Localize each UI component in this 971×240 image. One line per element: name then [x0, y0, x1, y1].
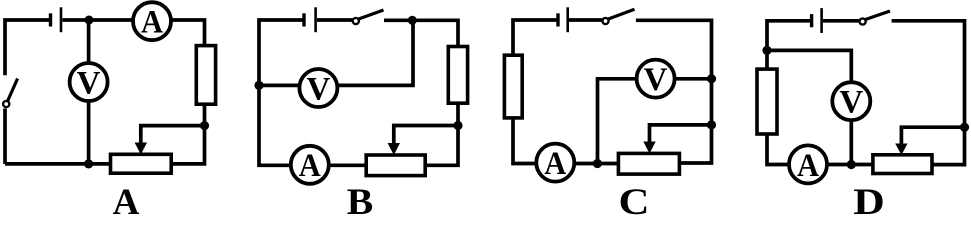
node: C right lower junction [707, 120, 716, 129]
svg-text:C: C [619, 182, 650, 217]
voltmeter V1 (circuit D) [832, 82, 870, 120]
wire: C wiper feed [650, 125, 712, 143]
rheostat R2 (circuit D) [873, 155, 932, 174]
battery (circuit C) [558, 7, 568, 32]
svg-text:V: V [839, 85, 863, 121]
wire: D resistor bottom to bottom-left corner along bottom to rheostat [767, 134, 873, 165]
wire: D wiper feed [901, 127, 964, 144]
svg-text:A: A [299, 148, 321, 184]
wire: B switch to top-right corner down to resistor [384, 20, 458, 47]
rheostat R2 (circuit A) [111, 154, 172, 173]
wire: B voltmeter branch across and up to top junction [259, 20, 413, 85]
wire: B left loop from battery over top-left corner down and along bottom to rheostat [259, 20, 366, 165]
switch S (circuit B, open, on top wire) [353, 10, 384, 24]
switch S (circuit D, open, on top wire) [860, 11, 891, 25]
wire: C battery to switch [569, 18, 602, 22]
wire: A resistor bottom down to rheostat right terminal [171, 104, 204, 164]
wire: A voltmeter branch [87, 20, 91, 164]
battery (circuit D) [812, 8, 822, 33]
node: D bottom junction [847, 160, 856, 169]
wire: D voltmeter branch from left junction across and down to bottom junction [767, 50, 851, 164]
wire: A top-left corner and upper left side [5, 20, 49, 75]
resistor R1 (circuit C) [504, 55, 522, 118]
node: C bottom junction [593, 159, 602, 168]
wire: D top-left corner and left side down to resistor [767, 21, 811, 69]
wire: B battery to switch [317, 18, 353, 22]
battery (circuit B) [304, 7, 316, 32]
resistor R1 (circuit A) [196, 46, 215, 105]
wire: B resistor bottom down to bottom-right corner to rheostat [425, 103, 458, 165]
wiper arrow (circuit D rheostat) [895, 144, 907, 156]
node: A top junction [85, 16, 94, 25]
wire: A bottom wire [5, 162, 111, 166]
resistor R1 (circuit B) [448, 47, 467, 104]
svg-text:B: B [347, 182, 374, 217]
node: B right junction [453, 121, 462, 130]
rheostat R2 (circuit C) [618, 153, 679, 174]
switch S (circuit C, open, on top wire) [602, 9, 634, 24]
voltmeter V1 (circuit B) [299, 69, 337, 107]
node: D right junction [960, 123, 969, 132]
node: D left junction [762, 46, 771, 55]
node: A right junction [200, 121, 209, 130]
wire: B wiper feed [394, 126, 458, 145]
node: A bottom junction [84, 159, 93, 168]
node: B left junction [254, 81, 263, 90]
wire: A wiper feed [141, 126, 205, 144]
wire: C switch to top-right corner, right side, bottom-right corner to rheostat [636, 20, 712, 163]
svg-text:A: A [141, 5, 163, 41]
wiper arrow (circuit C rheostat) [643, 142, 655, 154]
wiper arrow (circuit B rheostat) [388, 143, 400, 155]
voltmeter V1 (circuit A) [70, 63, 108, 101]
svg-text:A: A [544, 146, 566, 182]
resistor R1 (circuit D) [757, 69, 777, 134]
ammeter A1 (circuit B) [291, 146, 329, 184]
voltmeter V1 (circuit C) [637, 60, 675, 98]
svg-text:V: V [306, 71, 330, 107]
wire: A top wire from battery to top-right corner, down to resistor [63, 20, 205, 47]
wire: C top-left corner down to resistor [513, 20, 558, 55]
ammeter A1 (circuit D) [789, 145, 827, 183]
wire: C voltmeter branch across and down to bottom junction [598, 79, 712, 164]
wire: C resistor bottom to bottom-left corner along bottom to rheostat [513, 118, 618, 164]
rheostat R2 (circuit B) [366, 155, 425, 176]
ammeter A1 (circuit C) [536, 144, 574, 182]
node: C right upper junction [707, 74, 716, 83]
ammeter A1 (circuit A) [133, 2, 171, 40]
svg-text:V: V [77, 65, 101, 101]
wire: A left side below switch [3, 109, 7, 164]
svg-text:D: D [853, 182, 885, 217]
wiper arrow (circuit A rheostat) [135, 143, 147, 155]
wire: D switch to top-right corner, right side, bottom-right corner to rheostat [892, 21, 965, 165]
node: B top junction [408, 16, 417, 25]
switch S (circuit A, open, on left wire) [3, 79, 18, 108]
svg-text:V: V [644, 62, 668, 98]
svg-text:A: A [113, 182, 140, 217]
battery (circuit A) [51, 7, 62, 32]
wire: D battery to switch [823, 19, 859, 23]
svg-text:A: A [797, 148, 819, 184]
